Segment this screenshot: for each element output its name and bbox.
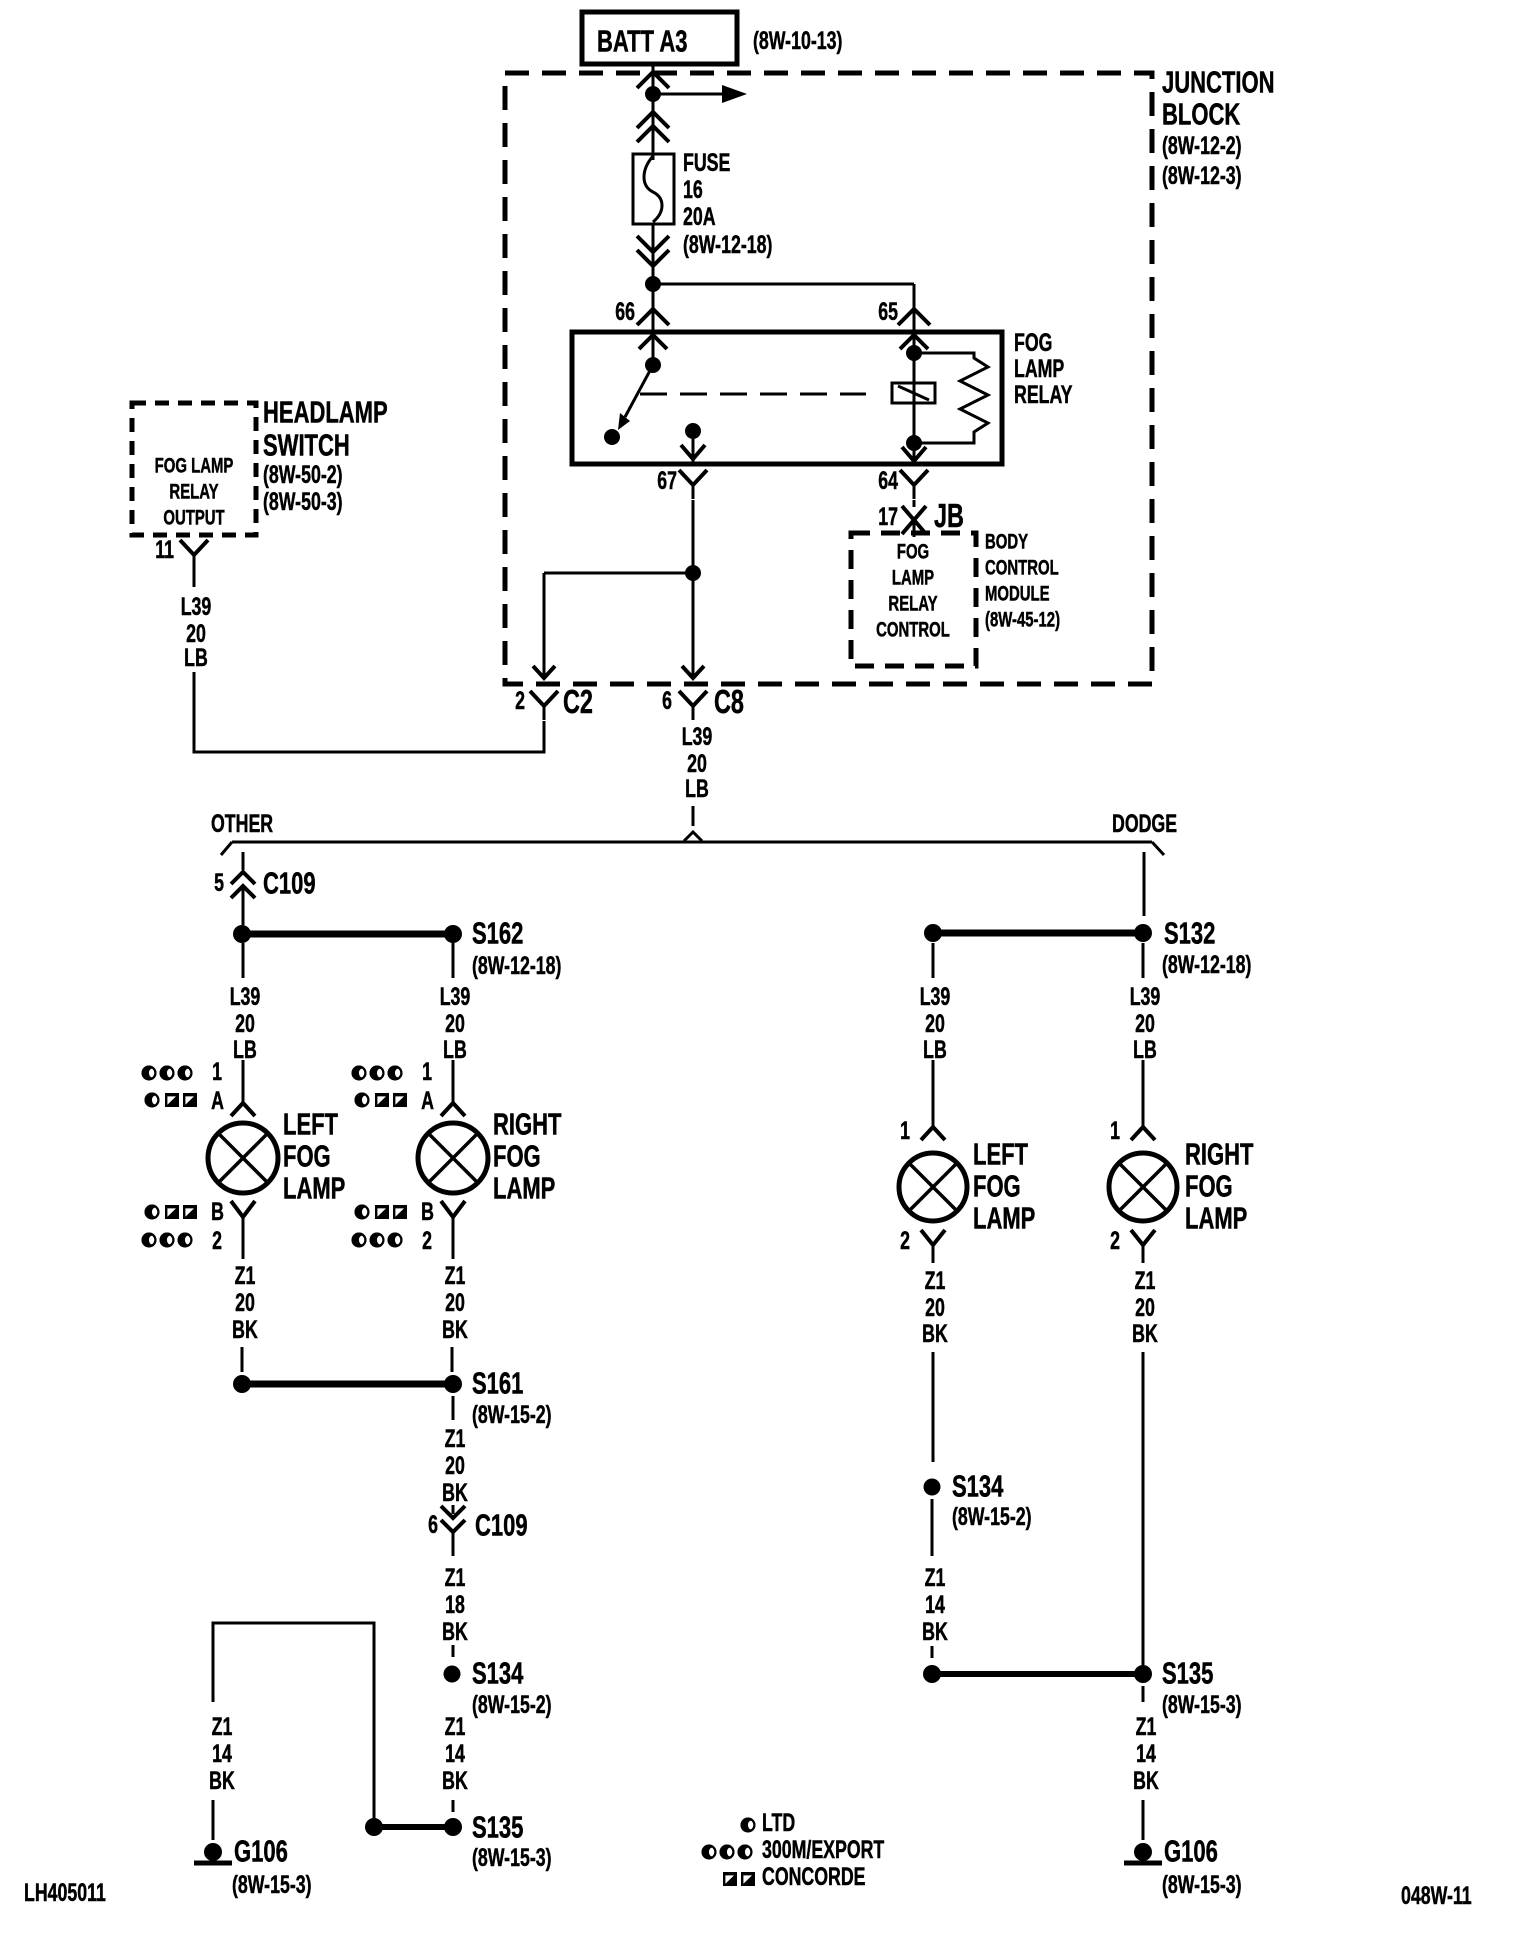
svg-text:BK: BK [442,1617,468,1646]
wire: C8 down to split [692,806,695,826]
connector C2 [515,684,593,721]
relay switch pivot dot [645,357,661,373]
node: battery feed junction dot [645,86,661,102]
connector at right DODGE lamp pin 2 [1131,1230,1155,1245]
node: coil bottom dot [906,435,922,451]
connector C8 [662,684,744,721]
svg-text:LB: LB [685,774,709,803]
connector at left OTHER lamp pin B [231,1201,255,1217]
svg-text:1: 1 [1110,1116,1120,1145]
arrowhead at C2 border exit [533,666,555,678]
svg-text:RIGHT: RIGHT [1185,1137,1254,1172]
LEFT FOG LAMP (OTHER) [208,1123,278,1193]
node: splice feeding relay pins 66 and 65 [645,276,661,292]
svg-text:BK: BK [922,1617,948,1646]
relay switch contact dot [604,429,620,445]
svg-text:CONTROL: CONTROL [985,556,1059,579]
svg-text:FOG: FOG [493,1139,541,1174]
battery feed BATT A3 [582,12,737,64]
wire: S132 to right fog lamp (DODGE) [1142,943,1145,978]
splice S162 [233,916,561,980]
svg-text:LAMP: LAMP [973,1201,1035,1236]
node: junction of C2 and C8 branches [685,565,701,581]
svg-text:2: 2 [515,686,525,715]
svg-text:L39: L39 [920,982,951,1011]
split bump joining OTHER and DODGE branches [684,832,702,841]
fuse FUSE 16 20A [633,154,674,224]
svg-text:6: 6 [662,686,672,715]
svg-text:(8W-50-2): (8W-50-2) [263,460,343,489]
wire: right DODGE lamp down to S135 [1142,1352,1145,1665]
svg-text:14: 14 [925,1590,945,1619]
arrow: feed continues to other circuits [653,85,747,103]
svg-text:LTD: LTD [762,1808,795,1837]
svg-text:16: 16 [683,175,703,204]
svg-text:LB: LB [443,1035,467,1064]
headlamp switch label [263,395,388,516]
connector chevron at junction block entry [637,72,669,88]
svg-text:LAMP: LAMP [892,566,934,589]
LEFT FOG LAMP (DODGE) [899,1153,967,1221]
svg-text:2: 2 [900,1226,910,1255]
svg-text:2: 2 [212,1226,222,1255]
relay resistor [914,353,988,443]
legend LTD [741,1808,796,1837]
wire: fuse to splice node [652,224,655,284]
wire: pin 66 to switch pivot [652,332,655,360]
svg-text:2: 2 [422,1226,432,1255]
svg-text:BK: BK [232,1315,258,1344]
wire: left DODGE lamp to S134 [932,1352,935,1462]
svg-text:HEADLAMP: HEADLAMP [263,395,388,430]
wire: S162 to left fog lamp (OTHER) [242,943,245,978]
svg-text:(8W-15-2): (8W-15-2) [472,1400,552,1429]
svg-text:BATT A3: BATT A3 [597,24,687,59]
relay switch arm with arrowhead [618,365,653,430]
svg-text:DODGE: DODGE [1112,809,1177,838]
model icons LTD/CONCORDE pin A (right OTHER lamp) [355,1086,435,1115]
svg-text:1: 1 [422,1057,432,1086]
svg-text:CONTROL: CONTROL [876,618,950,641]
svg-text:(8W-10-13): (8W-10-13) [753,26,842,55]
svg-text:BK: BK [442,1315,468,1344]
svg-text:LAMP: LAMP [493,1171,555,1206]
svg-text:(8W-12-18): (8W-12-18) [472,951,561,980]
node: coil top dot [906,345,922,361]
model icons LTD/CONCORDE pin A (left OTHER lamp) [145,1086,225,1115]
svg-text:(8W-45-12): (8W-45-12) [985,608,1060,631]
ground G106 (OTHER) [194,1834,312,1899]
svg-text:(8W-15-2): (8W-15-2) [472,1690,552,1719]
wire: branch to relay pin 65 [653,284,914,332]
svg-text:66: 66 [615,297,635,326]
svg-text:S161: S161 [472,1366,523,1401]
svg-text:20: 20 [235,1288,255,1317]
svg-text:BODY: BODY [985,530,1028,553]
junction block boundary [505,73,1152,684]
splice S132 [924,916,1251,979]
splice S134 (OTHER) [444,1656,552,1719]
relay pin 66 internal chevron [639,335,667,349]
svg-text:(8W-12-3): (8W-12-3) [1162,161,1242,190]
svg-text:20: 20 [445,1451,465,1480]
svg-text:20: 20 [235,1009,255,1038]
relay actuation dashed line [640,393,866,396]
svg-text:048W-11: 048W-11 [1401,1881,1472,1910]
svg-text:(8W-15-3): (8W-15-3) [472,1843,552,1872]
svg-text:LAMP: LAMP [1185,1201,1247,1236]
wire: ground leg (DODGE) [1142,1800,1145,1840]
pin 65 [878,297,930,326]
junction block label [1162,65,1274,190]
svg-text:L39: L39 [440,982,471,1011]
wire: relay pin 65 through coil to pin 64 [913,332,916,464]
svg-text:BK: BK [209,1766,235,1795]
model icons 300M/EXPORT pin 2 (left OTHER lamp) [142,1226,223,1255]
svg-text:OTHER: OTHER [211,809,273,838]
pin 66 [615,297,669,326]
svg-text:20A: 20A [683,202,716,231]
svg-text:C8: C8 [714,684,744,721]
wire: S134 down (DODGE) [931,1499,934,1556]
svg-text:(8W-15-3): (8W-15-3) [1162,1870,1242,1899]
wire: to S135 splice (DODGE) [931,1646,934,1658]
pin 11 [155,535,208,587]
svg-text:300M/EXPORT: 300M/EXPORT [762,1835,884,1864]
model icons LTD/CONCORDE pin B (right OTHER lamp) [355,1197,435,1226]
svg-text:(8W-12-2): (8W-12-2) [1162,131,1242,160]
svg-text:20: 20 [445,1009,465,1038]
legend CONCORDE [723,1862,866,1891]
svg-text:LB: LB [1133,1035,1157,1064]
relay coil [892,383,935,403]
connector at right DODGE lamp pin 1 [1142,1060,1145,1127]
pin 64 [878,466,928,499]
connector at right OTHER lamp pin B [441,1201,465,1217]
pin 17 JB mating connector [878,500,926,537]
wire: C109 to S134 (OTHER) [452,1645,455,1657]
svg-text:RIGHT: RIGHT [493,1107,562,1142]
svg-text:Z1: Z1 [235,1261,256,1290]
fog lamp relay box [572,332,1002,464]
svg-text:BK: BK [442,1478,468,1507]
svg-text:L39: L39 [1130,982,1161,1011]
wire: left OTHER lamp to S161 [241,1347,244,1372]
svg-text:LB: LB [184,643,208,672]
svg-text:BK: BK [1133,1766,1159,1795]
svg-text:RELAY: RELAY [888,592,937,615]
svg-text:Z1: Z1 [212,1712,233,1741]
svg-text:LB: LB [923,1035,947,1064]
svg-text:SWITCH: SWITCH [263,428,350,463]
svg-text:FUSE: FUSE [683,148,730,177]
ground G106 (DODGE) [1124,1834,1242,1899]
svg-text:Z1: Z1 [1136,1712,1157,1741]
svg-text:LEFT: LEFT [283,1107,338,1142]
svg-text:Z1: Z1 [925,1266,946,1295]
connector C109 pin 5 double chevron [214,866,315,925]
svg-text:Z1: Z1 [445,1424,466,1453]
connector at left OTHER lamp pin A [242,1060,245,1103]
wire: S132 to left fog lamp (DODGE) [932,943,935,978]
connector double chevron above fuse [637,112,669,128]
svg-text:17: 17 [878,502,898,531]
svg-text:14: 14 [212,1739,232,1768]
svg-text:LH405011: LH405011 [24,1878,106,1907]
model icons 300M/EXPORT pin 1 (right OTHER lamp) [352,1057,433,1086]
wire: S161 down [452,1396,455,1420]
svg-text:(8W-12-18): (8W-12-18) [683,230,772,259]
wire: split line [221,842,1164,855]
connector at right OTHER lamp pin A [452,1060,455,1103]
svg-text:5: 5 [214,868,224,897]
svg-text:(8W-15-3): (8W-15-3) [232,1870,312,1899]
wire: ground leg down to G106 (OTHER) [212,1800,215,1840]
svg-text:B: B [421,1197,434,1226]
wire: S135 down to G106 (DODGE) [1142,1686,1145,1702]
svg-text:RELAY: RELAY [169,480,218,503]
pin 67 [657,466,707,499]
wire: headlamp switch output to C2 [194,672,544,752]
svg-text:C109: C109 [263,866,316,901]
relay pin 65 internal chevron [900,335,928,349]
splice S135 (DODGE) [923,1656,1242,1719]
svg-text:20: 20 [925,1293,945,1322]
splice S161 [233,1366,552,1429]
svg-text:FOG LAMP: FOG LAMP [155,454,234,477]
svg-text:(8W-15-3): (8W-15-3) [1162,1690,1242,1719]
svg-text:2: 2 [1110,1226,1120,1255]
connector at left DODGE lamp pin 1 [932,1060,935,1127]
svg-text:Z1: Z1 [445,1563,466,1592]
wire: OTHER branch down to C109 [242,852,245,870]
wire: DODGE branch down to S132 [1143,852,1146,916]
svg-text:C2: C2 [563,684,593,721]
svg-text:11: 11 [155,535,174,564]
relay pin 67 node dot [685,423,701,439]
svg-text:CONCORDE: CONCORDE [762,1862,866,1891]
relay pin 67 internal arrow [681,439,705,462]
wire: S134 to S135 (OTHER) [452,1800,455,1812]
svg-text:RELAY: RELAY [1014,380,1073,409]
svg-text:1: 1 [900,1116,910,1145]
svg-text:67: 67 [657,466,677,495]
svg-text:BK: BK [922,1319,948,1348]
svg-text:20: 20 [925,1009,945,1038]
svg-text:FOG: FOG [1014,328,1052,357]
svg-text:BK: BK [442,1766,468,1795]
wire: relay pin 67 to splice node [692,500,695,573]
connector at left DODGE lamp pin 2 [921,1230,945,1245]
svg-text:Z1: Z1 [445,1261,466,1290]
splice S135 (OTHER) [365,1810,552,1872]
wire: branch to C2 exit [544,573,693,676]
svg-text:FOG: FOG [897,540,929,563]
legend 300M/EXPORT [702,1835,885,1864]
model icons 300M/EXPORT pin 2 (right OTHER lamp) [352,1226,433,1255]
svg-text:S132: S132 [1164,916,1215,951]
svg-text:BK: BK [1132,1319,1158,1348]
svg-text:Z1: Z1 [445,1712,466,1741]
svg-text:18: 18 [445,1590,465,1619]
svg-text:20: 20 [1135,1009,1155,1038]
svg-text:65: 65 [878,297,898,326]
svg-text:(8W-12-18): (8W-12-18) [1162,950,1251,979]
wire: S135 over to G106 ground (OTHER) [213,1623,374,1827]
wire: splice down to relay pin 66 [652,284,655,332]
svg-text:LEFT: LEFT [973,1137,1028,1172]
svg-text:LAMP: LAMP [283,1171,345,1206]
wire: main branch to C8 exit [692,573,695,676]
svg-text:S134: S134 [952,1469,1003,1504]
wire: right OTHER lamp to S161 [451,1347,454,1372]
svg-text:20: 20 [445,1288,465,1317]
svg-text:20: 20 [1135,1293,1155,1322]
wire: S162 to right fog lamp (OTHER) [452,943,455,978]
svg-text:(8W-50-3): (8W-50-3) [263,487,343,516]
connector C109 pin 6 double chevron [428,1505,527,1556]
svg-text:LB: LB [233,1035,257,1064]
svg-text:(8W-15-2): (8W-15-2) [952,1502,1032,1531]
connector double chevron below fuse [637,236,669,252]
splice S134 (DODGE) [924,1469,1032,1531]
relay pin 64 internal chevron [902,447,926,461]
svg-text:OUTPUT: OUTPUT [163,506,224,529]
svg-text:L39: L39 [682,722,713,751]
svg-text:A: A [211,1086,224,1115]
svg-text:FOG: FOG [973,1169,1021,1204]
svg-text:L39: L39 [230,982,261,1011]
model icons LTD/CONCORDE pin B (left OTHER lamp) [145,1197,225,1226]
arrowhead at C8 border exit [682,666,704,678]
svg-text:JB: JB [934,498,964,535]
svg-text:Z1: Z1 [1135,1266,1156,1295]
svg-text:L39: L39 [181,592,212,621]
svg-text:1: 1 [212,1057,222,1086]
wire: BATT A3 into junction block [652,64,655,160]
svg-text:Z1: Z1 [925,1563,946,1592]
svg-text:14: 14 [1136,1739,1156,1768]
svg-text:FOG: FOG [283,1139,331,1174]
headlamp switch box [132,403,256,535]
model icons 300M/EXPORT pin 1 (left OTHER lamp) [142,1057,223,1086]
svg-text:B: B [211,1197,224,1226]
svg-text:JUNCTION: JUNCTION [1162,65,1274,100]
svg-text:G106: G106 [234,1834,288,1869]
svg-text:MODULE: MODULE [985,582,1050,605]
svg-text:S162: S162 [472,916,523,951]
svg-text:BLOCK: BLOCK [1162,97,1241,132]
svg-text:64: 64 [878,466,898,495]
svg-text:LAMP: LAMP [1014,354,1064,383]
svg-text:C109: C109 [475,1508,528,1543]
svg-text:S135: S135 [1162,1656,1213,1691]
svg-text:S134: S134 [472,1656,523,1691]
svg-text:FOG: FOG [1185,1169,1233,1204]
svg-text:A: A [421,1086,434,1115]
body control module fog lamp relay control box [851,533,976,666]
svg-text:S135: S135 [472,1810,523,1845]
svg-text:6: 6 [428,1510,438,1539]
RIGHT FOG LAMP (DODGE) [1109,1153,1177,1221]
RIGHT FOG LAMP (OTHER) [418,1123,488,1193]
svg-text:14: 14 [445,1739,465,1768]
svg-text:G106: G106 [1164,1834,1218,1869]
